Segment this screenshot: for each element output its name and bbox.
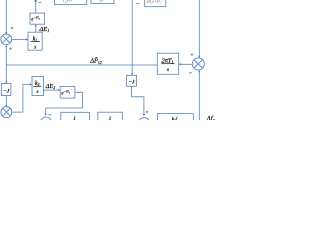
wire down from dP12 junction into block -J (left) — [5, 65, 7, 83]
arrowhead into S1 top — [5, 32, 7, 34]
wire S2 output left into tie-line block — [181, 63, 193, 65]
arrowhead into -J right top — [131, 73, 133, 75]
arrowhead into S4 top — [45, 114, 47, 116]
arrowhead into S1 bottom — [5, 45, 7, 47]
svg-text:ΔE2: ΔE2 — [45, 83, 55, 90]
wire delay E1 top up to top edge — [35, 0, 37, 13]
wire -J right down then right into summer S5 — [132, 86, 144, 114]
minus sign S2 bottom input — [189, 72, 192, 75]
svg-text:Δf2: Δf2 — [206, 116, 215, 120]
summing junction S2 — [192, 58, 204, 70]
wire from top down through dP12 line into -J right — [131, 0, 133, 73]
arrowhead into S2 top — [198, 56, 200, 58]
arrowhead into S3 top — [5, 105, 7, 107]
svg-text:s: s — [36, 89, 38, 95]
summing junction S5 (cut at bottom) — [139, 118, 150, 129]
svg-text:k2(: k2( — [172, 117, 178, 120]
block T1 (cut at top) — [54, 0, 86, 5]
arrowhead into k2/s — [30, 83, 32, 85]
block T2 (cut at top) — [91, 0, 114, 4]
arrowhead up at top edge — [34, 0, 37, 2]
arrowhead into S2 bottom — [198, 70, 200, 72]
block B1 integrator k1/s — [28, 32, 42, 50]
svg-text:−J: −J — [3, 88, 10, 94]
plus sign S2 top input — [191, 53, 194, 56]
svg-text:ΔE1: ΔE1 — [38, 26, 49, 33]
svg-text:s: s — [167, 67, 169, 73]
svg-text:1: 1 — [73, 117, 76, 120]
block -J left — [1, 84, 11, 96]
svg-text:ωs: ωs — [99, 0, 104, 2]
wire from dP12 line up into S1 bottom — [5, 47, 7, 65]
wire S1 output to block k1/s — [12, 38, 27, 40]
svg-text:1: 1 — [109, 117, 112, 120]
wire from bottom edge up into S2 — [198, 72, 200, 120]
minus sign top feedback left — [38, 1, 41, 4]
minus sign top feedback right — [136, 2, 139, 5]
arrowhead into delay E2 — [58, 89, 60, 91]
svg-text:−J: −J — [128, 80, 135, 86]
wire k2/s output to delay E2 — [43, 89, 58, 91]
block B (cut at bottom) — [98, 112, 123, 124]
plus sign S1 bottom input — [10, 48, 12, 50]
block -J right — [127, 75, 137, 86]
block tie-line 2piT1/s — [157, 53, 178, 74]
arrowhead into -J left top — [5, 82, 7, 84]
svg-text:ΔP̃12: ΔP̃12 — [89, 58, 102, 65]
block E2 delay — [60, 87, 75, 99]
minus sign S4 input — [49, 114, 52, 117]
arrowhead into tie-line block — [179, 63, 181, 65]
arrowhead into S5 top — [143, 114, 145, 116]
block E1 delay — [30, 13, 45, 24]
wire from top edge down into S2 — [198, 0, 200, 56]
block C (cut at bottom) — [158, 114, 194, 126]
plus sign S1 top input — [11, 27, 13, 29]
wire k1/s top up to delay block E1 — [35, 26, 37, 32]
wire input top-left into summer S1 — [5, 0, 7, 32]
block T3 (cut at top) — [145, 0, 166, 7]
svg-text:s: s — [34, 44, 36, 50]
block A (cut at bottom) — [61, 112, 90, 124]
block B2 integrator k2/s — [32, 76, 43, 95]
arrowhead up into delay E1 bottom — [35, 24, 37, 26]
dP12 long horizontal wire — [6, 64, 157, 66]
summing junction S3 — [1, 107, 12, 118]
wire S3 output right then up into k2/s — [12, 84, 30, 112]
wire delay E2 around to summer S4 — [46, 92, 83, 113]
wire -J left down into summer S3 — [5, 96, 7, 105]
arrowhead into k1/s — [26, 38, 28, 40]
summing junction S1 — [1, 34, 12, 45]
plus sign S5 input — [146, 111, 149, 114]
summing junction S4 (cut at bottom) — [40, 117, 51, 128]
